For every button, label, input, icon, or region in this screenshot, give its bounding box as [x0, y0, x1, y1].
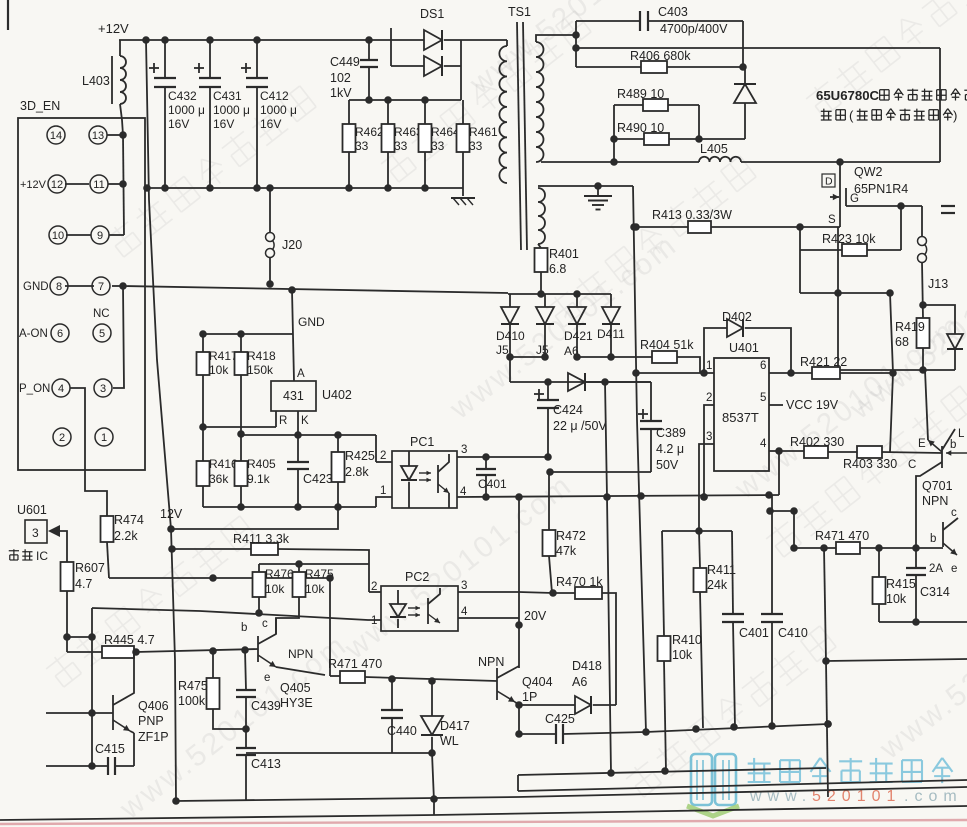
transistor Q405 NPN: [257, 636, 259, 662]
wire pin3 to GND: [113, 286, 124, 388]
continuation marks: [941, 205, 955, 207]
svg-text:2: 2: [706, 392, 712, 404]
label backlight IC: [9, 550, 19, 552]
wire long vertical mid: [633, 186, 646, 732]
svg-text:12V: 12V: [160, 507, 183, 521]
wire pin5 vcc: [769, 404, 783, 406]
svg-text:1: 1: [371, 615, 377, 627]
svg-text:3: 3: [706, 431, 712, 443]
capacitor C439: [245, 650, 246, 690]
svg-text:R607: R607: [75, 561, 105, 575]
svg-text:R406 680k: R406 680k: [630, 49, 691, 63]
resistor R417 10k: [202, 334, 204, 352]
wire pin1 rail: [636, 372, 714, 374]
svg-text:U402: U402: [322, 388, 352, 402]
svg-text:DS1: DS1: [420, 7, 444, 21]
wire sec-top vertical: [575, 21, 577, 67]
wire rail 622: [879, 621, 967, 623]
wire R471 left leg: [824, 548, 826, 661]
wire pin4: [769, 450, 779, 452]
svg-text:10k: 10k: [209, 363, 229, 377]
transistor Q70x NPN: [942, 522, 944, 547]
wire snubber top rail: [349, 99, 461, 101]
svg-text:R403 330: R403 330: [843, 457, 897, 471]
svg-text:1000 μ: 1000 μ: [168, 103, 205, 117]
transformer TS1 primary: [506, 40, 508, 46]
svg-text:3D_EN: 3D_EN: [20, 99, 60, 113]
wire mid vertical 607: [605, 382, 611, 773]
svg-text:A: A: [297, 368, 305, 380]
svg-text:10k: 10k: [886, 592, 907, 606]
wire Q405 emitter run: [276, 667, 325, 675]
svg-text:102: 102: [330, 71, 351, 85]
wire bottom divider rail: [203, 506, 376, 508]
wire rect top rail: [508, 293, 611, 295]
watermark texture: [104, 84, 317, 260]
resistor R472 47k: [548, 472, 550, 530]
svg-text:HY3E: HY3E: [280, 696, 313, 710]
svg-text:C439: C439: [251, 699, 281, 713]
svg-text:16V: 16V: [213, 117, 234, 131]
svg-text:R410: R410: [672, 633, 702, 647]
resistor R425 2.8k: [337, 435, 339, 452]
resistor R475c 100k: [212, 651, 214, 678]
svg-text:NPN: NPN: [288, 647, 313, 661]
capacitor C425: [518, 705, 520, 734]
capacitor C424 22u/50V: [547, 382, 549, 400]
wire divider top rail: [203, 333, 293, 335]
wire pc1 pin1: [376, 497, 392, 507]
resistor R607 4.7: [61, 562, 74, 591]
svg-text:33: 33: [431, 139, 445, 153]
ground symbol snubber: [462, 188, 464, 196]
svg-text:4: 4: [58, 383, 64, 395]
svg-text:4: 4: [460, 486, 467, 498]
svg-text:C410: C410: [778, 626, 808, 640]
resistor R464 33: [424, 100, 426, 124]
svg-text:14: 14: [50, 130, 62, 142]
capacitor C314: [915, 548, 917, 568]
svg-text:C424: C424: [553, 403, 583, 417]
svg-text:C432: C432: [168, 89, 197, 103]
wire rail 382: [510, 381, 651, 383]
resistor R405 9.1k: [240, 435, 242, 461]
resistor R406 680k: [576, 66, 641, 68]
wire pin3: [699, 444, 714, 531]
svg-text:c: c: [262, 618, 268, 630]
wire pc2 pin4: [458, 617, 519, 619]
svg-text:S: S: [828, 214, 836, 226]
svg-text:R425: R425: [345, 449, 375, 463]
svg-text:R404 51k: R404 51k: [640, 338, 694, 352]
svg-text:2.8k: 2.8k: [345, 465, 369, 479]
svg-text:E: E: [918, 438, 926, 450]
svg-text:20V: 20V: [524, 609, 547, 623]
wire rect out B: [577, 356, 611, 358]
resistor R415 10k: [878, 548, 880, 577]
wire vcc vert: [890, 293, 893, 452]
svg-text:22 μ /50V: 22 μ /50V: [553, 419, 607, 433]
wire pin2: [704, 405, 714, 497]
svg-text:C314: C314: [920, 585, 950, 599]
wire pin7 GND rail: [112, 285, 123, 287]
transformer TS1 secondary top: [536, 35, 576, 42]
wire pin4 P_ON down: [70, 388, 107, 516]
wire r607 branch: [67, 636, 92, 638]
resistor R445 4.7: [67, 651, 102, 653]
svg-text:D421: D421: [564, 329, 593, 343]
wire pin13 to 12V: [107, 134, 123, 136]
svg-text:65U6780C: 65U6780C: [816, 88, 880, 103]
capacitor C449: [368, 40, 370, 60]
wire rail 578: [109, 577, 330, 579]
svg-text:68: 68: [895, 335, 909, 349]
wire 12V long vertical: [146, 40, 176, 801]
svg-text:A-ON: A-ON: [19, 328, 48, 340]
svg-text:100k: 100k: [178, 694, 206, 708]
svg-text:36k: 36k: [209, 472, 229, 486]
wire rail 801: [176, 797, 518, 801]
wire r471 feed: [793, 511, 795, 548]
svg-text:Q404: Q404: [522, 675, 553, 689]
resistor R475b 10k: [298, 564, 300, 572]
svg-text:6.8: 6.8: [549, 262, 566, 276]
diode D402: [704, 328, 727, 373]
svg-text:e: e: [264, 672, 270, 684]
svg-text:QW2: QW2: [854, 165, 883, 179]
svg-text:R476: R476: [265, 567, 294, 581]
wire pin6 rail: [769, 372, 812, 374]
capacitor C431: [209, 40, 211, 78]
wire gate node: [897, 202, 905, 210]
wire c389 bottom rail: [550, 471, 651, 473]
site logo bottom-right: [691, 754, 736, 805]
wire pin9 to 12V: [109, 234, 124, 236]
svg-text:R471 470: R471 470: [815, 529, 869, 543]
wire pc2pin3 up: [518, 497, 520, 668]
svg-text:C440: C440: [387, 724, 417, 738]
svg-text:4700p/400V: 4700p/400V: [660, 22, 728, 36]
wire pc2 pin1: [92, 608, 381, 620]
svg-text:L403: L403: [82, 74, 110, 88]
wire vert 828: [826, 661, 828, 797]
svg-text:WL: WL: [440, 734, 459, 748]
svg-text:L: L: [958, 428, 965, 440]
svg-text:Q405: Q405: [280, 681, 311, 695]
svg-text:(: (: [849, 108, 854, 123]
svg-text:R413 0.33/3W: R413 0.33/3W: [652, 208, 732, 222]
svg-text:b: b: [930, 533, 936, 545]
svg-text:D410: D410: [496, 329, 525, 343]
svg-text:1P: 1P: [522, 690, 537, 704]
svg-text:R490 10: R490 10: [617, 121, 664, 135]
wire right rail 293: [800, 292, 890, 294]
svg-text:PC2: PC2: [405, 570, 429, 584]
svg-text:R461: R461: [469, 125, 498, 139]
inductor L405: [699, 157, 741, 162]
wire rail 370: [838, 369, 955, 371]
svg-text:R474: R474: [114, 513, 144, 527]
svg-text:3: 3: [32, 526, 39, 540]
svg-text:65PN1R4: 65PN1R4: [854, 182, 908, 196]
wire vert 518: [517, 775, 519, 791]
resistor R461 33: [462, 100, 464, 124]
svg-text:5: 5: [760, 392, 766, 404]
resistor R403 330: [828, 451, 857, 453]
jumper J13: [918, 237, 927, 246]
capacitor C403: [576, 20, 640, 22]
svg-text:R421 22: R421 22: [800, 355, 847, 369]
wire rail 661: [826, 659, 967, 661]
resistor R476 10k: [258, 564, 260, 572]
svg-text:R462: R462: [355, 125, 384, 139]
transistor QW2 65PN1R4: [839, 162, 841, 182]
connector pins 1-14: [47, 126, 65, 144]
resistor R423 10k: [799, 227, 801, 250]
capacitor C440: [391, 679, 393, 710]
svg-text:C401: C401: [478, 477, 507, 491]
wire sec ground rail: [544, 185, 633, 187]
svg-text:10k: 10k: [305, 582, 325, 596]
wire rail 564: [259, 563, 369, 565]
capacitor C412: [256, 40, 258, 78]
svg-text:1000 μ: 1000 μ: [213, 103, 250, 117]
svg-text:b: b: [241, 622, 247, 634]
svg-text:TS1: TS1: [508, 5, 531, 19]
transistor Q404 NPN: [496, 668, 498, 700]
svg-text:9: 9: [97, 230, 103, 242]
diode D419 right edge: [923, 305, 955, 334]
svg-text:R415: R415: [886, 577, 916, 591]
resistor R411 3.3k: [172, 548, 251, 550]
svg-text:6: 6: [760, 360, 766, 372]
diode D420 J5: [544, 294, 546, 307]
svg-text:R418: R418: [247, 349, 276, 363]
svg-text:150k: 150k: [247, 363, 274, 377]
wire sec rail: [541, 161, 699, 163]
svg-text:5: 5: [99, 328, 105, 340]
capacitor C413: [245, 729, 247, 748]
svg-text:R: R: [279, 415, 287, 427]
svg-text:4.2 μ: 4.2 μ: [656, 442, 684, 456]
wire rail 773: [518, 768, 826, 775]
wire rail 727: [642, 728, 650, 736]
wire K pin: [297, 411, 299, 435]
connector 3D_EN box: [18, 118, 145, 470]
wire 330 vertical: [329, 578, 331, 676]
svg-text:2: 2: [371, 581, 377, 593]
resistor R411b 24k: [699, 531, 700, 568]
svg-text:4: 4: [760, 438, 767, 450]
svg-text:1: 1: [101, 432, 107, 444]
resistor R418 150k: [240, 334, 242, 352]
capacitor C432: [164, 40, 166, 78]
diode D406: [744, 67, 746, 84]
wire drain rail: [741, 161, 940, 163]
svg-text:L405: L405: [700, 142, 728, 156]
svg-text:8: 8: [56, 281, 62, 293]
resistor R421 22: [812, 367, 840, 379]
ic U401 8537T: [714, 358, 769, 471]
svg-text:D: D: [825, 176, 833, 188]
svg-text:7: 7: [98, 281, 104, 293]
svg-text:A6: A6: [572, 675, 587, 689]
svg-text:2: 2: [59, 432, 65, 444]
svg-text:2: 2: [380, 450, 386, 462]
diode D418 A6: [515, 701, 523, 709]
svg-text:1000 μ: 1000 μ: [260, 103, 297, 117]
svg-text:C425: C425: [545, 712, 575, 726]
svg-text:R423 10k: R423 10k: [822, 232, 876, 246]
svg-text:11: 11: [93, 179, 104, 191]
svg-text:C449: C449: [330, 55, 360, 69]
svg-text:431: 431: [283, 389, 304, 403]
transistor Q406 PNP: [46, 712, 113, 714]
svg-text:1kV: 1kV: [330, 86, 352, 100]
diode D411: [610, 294, 612, 307]
svg-text:VCC 19V: VCC 19V: [786, 398, 839, 412]
svg-text:R471 470: R471 470: [328, 657, 382, 671]
wire bottom edge dark: [0, 815, 434, 820]
svg-text:1: 1: [706, 360, 712, 372]
resistor R413 0.33/3W: [636, 226, 688, 228]
svg-text:3: 3: [461, 444, 467, 456]
svg-text:50V: 50V: [656, 458, 679, 472]
wire base dot Q404: [428, 677, 436, 685]
svg-text:ZF1P: ZF1P: [138, 730, 169, 744]
capacitor C401b: [732, 531, 733, 614]
wire pc2 pin2: [368, 564, 370, 592]
svg-text:C431: C431: [213, 89, 242, 103]
diode D410: [509, 294, 511, 307]
svg-text:NC: NC: [93, 308, 110, 320]
svg-text:C389: C389: [656, 426, 686, 440]
edge mark top-left: [7, 0, 9, 30]
wire pin8-7 link: [65, 285, 94, 287]
svg-text:33: 33: [469, 139, 483, 153]
wire rail 791: [518, 780, 967, 791]
wire base rail Q405: [136, 649, 258, 652]
capacitor C401a: [457, 456, 548, 458]
svg-text:R472: R472: [556, 529, 586, 543]
wire vert 92: [91, 608, 93, 766]
svg-text:R419: R419: [895, 320, 925, 334]
resistor R419 68: [917, 318, 930, 348]
svg-text:R445 4.7: R445 4.7: [104, 633, 155, 647]
resistor R404 51k: [611, 356, 652, 358]
svg-text:D411: D411: [597, 327, 625, 341]
svg-text:4: 4: [461, 606, 468, 618]
diode D417 WL: [431, 681, 433, 716]
svg-text:47k: 47k: [556, 544, 577, 558]
wire pc2 pin3: [458, 591, 519, 593]
resistor R462 33: [348, 100, 350, 124]
svg-text:+12V: +12V: [20, 179, 47, 191]
transformer TS1 secondary lower: [538, 188, 545, 244]
svg-text:33: 33: [355, 139, 369, 153]
svg-text:Q701: Q701: [922, 479, 953, 493]
ground symbol secondary: [597, 186, 599, 196]
svg-text:2.2k: 2.2k: [114, 529, 138, 543]
svg-text:PC1: PC1: [410, 435, 434, 449]
resistor R410 10k: [662, 531, 664, 636]
svg-text:12: 12: [51, 179, 63, 191]
svg-text:C403: C403: [658, 5, 688, 19]
svg-text:8537T: 8537T: [722, 410, 759, 425]
svg-text:R402 330: R402 330: [790, 435, 844, 449]
resistor R470 1k: [519, 592, 553, 593]
resistor R401 6.8: [538, 244, 541, 248]
svg-text:10k: 10k: [672, 648, 693, 662]
svg-text:P_ON: P_ON: [19, 383, 50, 395]
svg-text:GND: GND: [23, 281, 49, 293]
wire U601 arrow: [48, 525, 60, 537]
wire DS1 to TS1: [461, 39, 507, 41]
inductor L403: [111, 56, 113, 104]
svg-text:b: b: [950, 439, 956, 451]
jumper J20: [269, 188, 271, 233]
wire pc1 pin4 rail: [457, 495, 779, 497]
svg-text:C415: C415: [95, 742, 125, 756]
transistor Q701 NPN: [941, 446, 943, 468]
wire rail 753: [246, 752, 432, 754]
resistor R471b 470: [794, 547, 836, 549]
title line2: [821, 110, 832, 112]
svg-text:.com: .com: [904, 788, 963, 805]
wire cap bottom rail: [147, 187, 463, 189]
wire R pin: [275, 411, 277, 427]
resistor R416 36k: [202, 427, 204, 461]
wire q701 emitter up: [925, 370, 928, 440]
svg-text:U601: U601: [17, 503, 47, 517]
wire pc1 pin2: [375, 435, 377, 462]
svg-text:IC: IC: [36, 549, 48, 563]
svg-text:D418: D418: [572, 659, 602, 673]
svg-text:J20: J20: [282, 238, 302, 252]
svg-text:10k: 10k: [265, 582, 285, 596]
svg-text:c: c: [951, 507, 957, 519]
svg-text:R470 1k: R470 1k: [556, 575, 603, 589]
optocoupler PC2: [381, 586, 458, 631]
optocoupler PC1: [392, 451, 457, 508]
svg-text:4.7: 4.7: [75, 577, 92, 591]
svg-text:1: 1: [380, 485, 386, 497]
svg-text:C423: C423: [303, 472, 333, 486]
resistor R489 10: [614, 104, 643, 106]
wire pin4 branch: [778, 452, 780, 495]
svg-text:6: 6: [57, 328, 63, 340]
svg-text:K: K: [301, 415, 309, 427]
svg-text:24k: 24k: [707, 578, 728, 592]
svg-text:+12V: +12V: [98, 21, 129, 36]
svg-text:C401: C401: [739, 626, 769, 640]
svg-text:NPN: NPN: [922, 494, 948, 508]
resistor R463 33: [387, 100, 389, 124]
capacitor C389 4.2u50V: [650, 382, 652, 421]
ic U402 431: [271, 381, 316, 411]
svg-text:J13: J13: [928, 277, 948, 291]
diode D421: [576, 294, 578, 307]
svg-text:3: 3: [100, 383, 106, 395]
wire rect out A: [510, 356, 545, 358]
wire +12V top rail: [119, 39, 391, 41]
svg-text:U401: U401: [729, 341, 759, 355]
svg-text:33: 33: [394, 139, 408, 153]
resistor R471a 470: [330, 675, 340, 677]
svg-text:16V: 16V: [260, 117, 281, 131]
edge line bottom pink: [0, 820, 967, 824]
resistor R402 330: [779, 450, 804, 452]
